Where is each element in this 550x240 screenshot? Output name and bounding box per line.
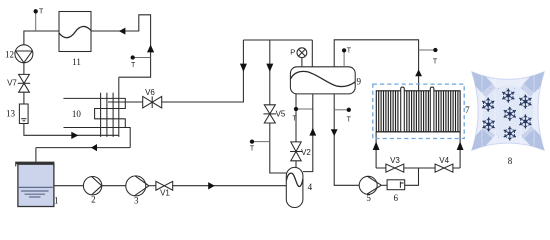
sensor T1 dot [34, 9, 38, 31]
svg-text:V4: V4 [439, 156, 449, 165]
valve V6 [143, 96, 162, 108]
vessel 4 [286, 167, 303, 207]
wire 13 down to HX bottom header [24, 124, 119, 136]
valve V7 [18, 74, 30, 92]
condenser bottom header [376, 131, 460, 133]
HX10 serpentine coil [63, 98, 130, 147]
vapor line drum to condenser [334, 40, 418, 91]
condenser dashed boundary 7 [373, 84, 464, 138]
condenser U-tube left [401, 87, 405, 132]
condenser feed line V3-V4 [376, 167, 460, 169]
condenser left drop [375, 132, 377, 168]
sensor T5 dot (drum top right) [342, 48, 346, 67]
svg-text:T: T [347, 47, 352, 54]
arrow up on x312.8 [309, 128, 316, 136]
svg-text:8: 8 [508, 156, 513, 166]
pump 3 [126, 176, 149, 196]
arrow up on x418.6 [415, 69, 422, 76]
arrow down on x243.4 [240, 64, 247, 72]
wire loop to drum top [311, 40, 313, 67]
wire drum bottom to pump5 [334, 94, 359, 185]
arrow down on x269.8 [266, 64, 273, 72]
svg-text:4: 4 [308, 182, 313, 192]
sensor T2 dot [131, 55, 151, 59]
arrow left on return line [91, 144, 97, 151]
condenser 7 finned block [376, 91, 460, 132]
svg-text:V3: V3 [390, 156, 400, 165]
wire V7 to filter13 [23, 92, 25, 104]
HX10 crossing tube 3 [112, 93, 114, 137]
arrow down on x334.2 [331, 129, 338, 136]
pump 2 [83, 177, 101, 195]
sensor T7 dot [419, 48, 438, 52]
svg-text:V5: V5 [276, 110, 286, 119]
svg-text:3: 3 [134, 196, 139, 206]
svg-text:T: T [292, 115, 297, 122]
wire: pump12 top to box11 [24, 31, 59, 45]
gauge P [297, 48, 307, 67]
svg-text:V7: V7 [7, 79, 17, 88]
sensor T4 dot [294, 107, 313, 111]
wire pump2 to pump3 [102, 185, 126, 187]
svg-text:T: T [433, 58, 438, 65]
svg-text:V2: V2 [301, 148, 311, 157]
svg-text:13: 13 [6, 109, 16, 119]
svg-text:T: T [347, 117, 352, 124]
wire: box11 right jog to riser [91, 15, 151, 77]
wire V1 to vessel4 [173, 185, 287, 187]
condenser U-tube right [430, 87, 434, 132]
svg-text:1: 1 [54, 196, 59, 206]
wire 6 to junction and up [405, 168, 419, 185]
branch V5 vertical upper [269, 40, 271, 105]
arrow up on riser x150.6 [147, 45, 154, 53]
arrow right on main line [208, 182, 215, 189]
svg-text:11: 11 [72, 57, 81, 67]
arrow right on bottom header [71, 132, 78, 139]
wire pump3 to V1 [149, 185, 156, 187]
svg-text:P: P [290, 47, 295, 56]
HX10 crossing tube 4 / riser leg [118, 77, 120, 137]
wire V5 down to vessel4 left [270, 123, 287, 173]
arrow up on left drop [373, 142, 380, 151]
wire HX to V6 [108, 101, 143, 103]
return line to tank [36, 147, 130, 149]
valve V3 [386, 164, 404, 172]
condenser right drop [459, 132, 461, 168]
wire drum bottom to V2 [295, 94, 297, 142]
svg-text:2: 2 [91, 195, 96, 205]
arrow up on right drop [457, 142, 464, 151]
svg-text:T: T [131, 62, 136, 69]
valve V1 [156, 181, 173, 190]
top loop header [243, 39, 312, 41]
svg-text:T: T [39, 9, 44, 16]
arrow left on box11 outlet [119, 28, 126, 35]
separator drum 9 [290, 67, 355, 94]
heater box 11 [59, 12, 91, 52]
pump 12 [15, 45, 33, 63]
svg-text:9: 9 [357, 76, 362, 86]
main suction line tank to pump2 [54, 185, 83, 187]
svg-text:6: 6 [394, 193, 399, 203]
svg-text:V1: V1 [160, 189, 170, 198]
wire V2 to vessel4 [295, 161, 297, 168]
HX10 crossing tube 2 [106, 93, 108, 137]
svg-text:12: 12 [5, 50, 14, 60]
wire vessel4 right to drum riser [303, 94, 313, 172]
HX10 crossing tube 1 [100, 93, 102, 137]
svg-text:5: 5 [366, 193, 371, 203]
filter 13 [19, 104, 28, 124]
sensor T3 dot [250, 139, 270, 143]
wire V6 to riser x243.4 [162, 40, 244, 102]
tank 1 inlet pipe [35, 148, 37, 162]
svg-text:T: T [250, 146, 255, 153]
snowflakes in fan 8 [481, 89, 532, 141]
svg-text:7: 7 [465, 105, 470, 115]
sensor T6 dot [334, 108, 351, 112]
wire pump12 to V7 [23, 63, 25, 75]
valve V4 [435, 164, 453, 172]
valve V5 [263, 105, 276, 123]
svg-text:10: 10 [72, 109, 82, 119]
pump 5 [359, 176, 381, 194]
valve V2 [290, 142, 302, 161]
tank 1 [15, 163, 54, 207]
wire pump5 to flowmeter 6 [382, 184, 387, 186]
flowmeter 6 [387, 180, 405, 190]
svg-text:V6: V6 [145, 88, 155, 97]
